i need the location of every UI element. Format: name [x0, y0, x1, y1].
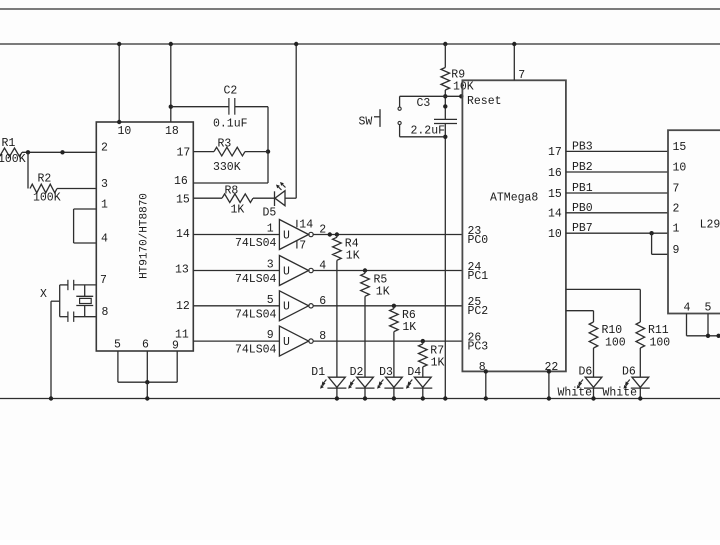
resistor R8 — [193, 184, 274, 216]
node R5 junction — [363, 268, 367, 272]
wire reset — [445, 95, 462, 97]
svg-text:PB0: PB0 — [572, 202, 593, 215]
IC U4 L293D box — [668, 130, 720, 313]
IC U2 HT9170/HT8870 box — [96, 122, 193, 351]
label X — [40, 288, 47, 301]
wire R1 to pin2 — [22, 151, 96, 153]
capacitor on pin7 — [68, 280, 74, 290]
pin 1 label — [101, 199, 108, 212]
svg-text:22: 22 — [545, 361, 559, 374]
svg-text:U: U — [283, 336, 290, 349]
svg-text:White: White — [603, 386, 638, 399]
node pin22 at IC — [547, 369, 551, 373]
pin 4 label — [101, 233, 108, 246]
resistor R10 — [589, 322, 626, 350]
wire R11 net — [566, 289, 640, 322]
svg-text:5: 5 — [114, 339, 121, 352]
svg-text:1K: 1K — [231, 204, 245, 217]
LED D6 second — [622, 366, 650, 389]
svg-text:PC3: PC3 — [468, 340, 489, 353]
node pin8 ground — [484, 396, 488, 400]
svg-text:PC2: PC2 — [468, 305, 489, 318]
svg-text:R2: R2 — [38, 173, 52, 186]
resistor R11 — [636, 322, 670, 350]
capacitor C2 — [213, 85, 248, 131]
node pin6 ground — [145, 396, 149, 400]
pin 18 label — [165, 125, 179, 138]
svg-text:1K: 1K — [376, 286, 390, 299]
svg-text:D6: D6 — [622, 366, 636, 379]
node X ground — [49, 396, 53, 400]
svg-text:R10: R10 — [602, 324, 623, 337]
node C3 ground — [443, 396, 447, 400]
svg-text:R1: R1 — [2, 137, 16, 150]
svg-text:ATMega8: ATMega8 — [490, 191, 538, 204]
pin 6 label — [142, 339, 149, 352]
pin 16 label — [174, 175, 188, 188]
svg-text:X: X — [40, 288, 47, 301]
svg-text:9: 9 — [172, 340, 179, 353]
svg-text:D2: D2 — [350, 366, 364, 379]
node PB7 branch — [649, 231, 653, 235]
svg-text:6: 6 — [142, 339, 149, 352]
svg-text:14: 14 — [176, 228, 190, 241]
svg-text:R11: R11 — [648, 324, 669, 337]
wire R10 to D6 — [593, 348, 595, 377]
svg-text:9: 9 — [673, 244, 680, 257]
svg-text:C3: C3 — [417, 97, 431, 110]
svg-text:100K: 100K — [33, 192, 61, 205]
svg-text:18: 18 — [165, 125, 179, 138]
svg-text:4: 4 — [319, 260, 326, 273]
svg-text:16: 16 — [174, 175, 188, 188]
node pin10 rail — [117, 42, 121, 46]
svg-text:1: 1 — [101, 199, 108, 212]
svg-text:74LS04: 74LS04 — [235, 344, 277, 357]
svg-text:10: 10 — [673, 162, 687, 175]
svg-text:10: 10 — [118, 125, 132, 138]
svg-text:R8: R8 — [225, 184, 239, 197]
wire PB7 to pin9 — [652, 233, 668, 254]
capacitor C3 — [411, 97, 458, 137]
pin 10 label L29 left — [673, 162, 687, 175]
node pin18 rail — [169, 42, 173, 46]
wire pins 5-6-9 bus — [118, 381, 177, 383]
node D3 ground — [392, 396, 396, 400]
svg-text:74LS04: 74LS04 — [235, 308, 277, 321]
diode D3 — [377, 366, 403, 389]
node edge junction — [716, 334, 720, 338]
resistor R4 — [333, 235, 360, 263]
wire pin9 drop — [176, 351, 178, 382]
wire PB0 net — [548, 202, 668, 221]
pin 15 label L29 left — [673, 141, 687, 154]
pin 7 label ATMega — [518, 69, 525, 82]
wire pin5 drop — [117, 351, 119, 382]
svg-text:1K: 1K — [402, 321, 416, 334]
wire caps vertical — [59, 285, 61, 317]
label L293D — [700, 219, 720, 232]
resistor R3 — [193, 137, 268, 174]
wire pin6 drop — [146, 351, 148, 382]
resistor R9 — [441, 44, 474, 119]
svg-text:Reset: Reset — [467, 95, 502, 108]
LED D5 — [263, 182, 286, 220]
svg-text:2: 2 — [319, 224, 326, 237]
diode D1 — [311, 366, 346, 389]
pin 9 label L29 — [673, 244, 680, 257]
wire pin8 lead — [60, 316, 97, 318]
wire R10 net — [566, 311, 594, 322]
pin 7 label L29 left — [673, 183, 680, 196]
node C2 tap — [169, 105, 173, 109]
node R7 junction — [421, 339, 425, 343]
wire top border line — [0, 8, 720, 10]
node C3 bottom — [443, 135, 447, 139]
LED D6 first — [577, 366, 603, 389]
svg-text:16: 16 — [548, 167, 562, 180]
pin 7 label — [100, 274, 107, 287]
svg-text:6: 6 — [319, 295, 326, 308]
wire pin18 to rail — [170, 44, 172, 122]
wire R11 to D6 — [639, 348, 641, 377]
node pin5 junction — [706, 334, 710, 338]
pin 12 label — [176, 300, 190, 313]
node R9 rail — [443, 42, 447, 46]
pin 3 label — [101, 178, 108, 191]
svg-text:D1: D1 — [311, 366, 325, 379]
label White first — [558, 386, 593, 399]
node bus junction — [145, 380, 149, 384]
pin 24 label — [468, 261, 482, 274]
wire +V top rail — [0, 43, 720, 45]
svg-text:15: 15 — [673, 141, 687, 154]
node R6 junction — [392, 304, 396, 308]
svg-text:17: 17 — [548, 146, 562, 159]
resistor R2 — [30, 173, 61, 205]
inverter U1B 74LS04 — [193, 256, 462, 287]
node reset at IC — [459, 94, 463, 98]
svg-text:White: White — [558, 386, 593, 399]
wire D6b to ground — [639, 388, 641, 398]
svg-text:14: 14 — [299, 219, 313, 232]
wire pin4 L29 — [687, 314, 720, 336]
svg-text:C2: C2 — [224, 85, 238, 98]
svg-text:1: 1 — [267, 223, 274, 236]
switch SW — [359, 96, 446, 137]
wire D5 to rail — [285, 44, 296, 198]
inverter U1C 74LS04 — [193, 291, 462, 322]
node pin10 at IC — [117, 120, 121, 124]
svg-text:1: 1 — [673, 223, 680, 236]
svg-text:8: 8 — [319, 330, 326, 343]
resistor R1 — [0, 137, 26, 166]
svg-text:10K: 10K — [453, 81, 474, 94]
label HT9170/HT8870 — [139, 193, 151, 279]
svg-text:14: 14 — [548, 208, 562, 221]
capacitor on pin8 — [68, 312, 74, 322]
svg-text:PC0: PC0 — [468, 234, 489, 247]
node D6b ground — [638, 396, 642, 400]
pin 10 label — [118, 125, 132, 138]
svg-text:100K: 100K — [0, 153, 26, 166]
wire D6a to ground — [593, 388, 595, 398]
wire pin8 ATMega to ground — [485, 371, 487, 398]
svg-text:D3: D3 — [379, 366, 393, 379]
node pin22 ground — [547, 396, 551, 400]
label ATMega8 — [490, 191, 538, 204]
node pin7 rail — [512, 42, 516, 46]
node below reset — [443, 104, 447, 108]
node extra junction — [328, 232, 332, 236]
svg-text:7: 7 — [299, 240, 306, 253]
node pin8 at IC — [484, 369, 488, 373]
node on pin2 wire — [60, 150, 64, 154]
svg-text:7: 7 — [100, 274, 107, 287]
wire R7 to D4 — [422, 367, 424, 377]
wire pin5 L29 — [707, 314, 709, 336]
pin 23 label — [468, 225, 482, 238]
wire R2 drop — [27, 152, 29, 188]
pin 25 label — [468, 296, 482, 309]
svg-text:7: 7 — [673, 183, 680, 196]
svg-text:HT9170/HT8870: HT9170/HT8870 — [139, 193, 151, 279]
label PC0 — [468, 234, 489, 247]
node D5 rail — [294, 42, 298, 46]
pin 14 label — [176, 228, 190, 241]
wire C2 right — [193, 107, 268, 183]
pin 4 label L29 — [684, 302, 691, 315]
svg-text:10: 10 — [548, 228, 562, 241]
svg-text:D4: D4 — [407, 366, 421, 379]
pin 11 label — [175, 329, 189, 342]
node reset junction — [443, 94, 447, 98]
node D4 ground — [421, 396, 425, 400]
svg-text:PB3: PB3 — [572, 140, 593, 153]
svg-text:15: 15 — [548, 188, 562, 201]
svg-text:0.1uF: 0.1uF — [213, 118, 248, 131]
svg-text:5: 5 — [705, 302, 712, 315]
pin 17 label — [177, 147, 191, 160]
svg-text:3: 3 — [267, 259, 274, 272]
pin 5 label — [114, 339, 121, 352]
svg-text:13: 13 — [175, 263, 189, 276]
svg-text:L293D: L293D — [700, 219, 720, 232]
wire C3 down — [444, 124, 446, 399]
pin 2 label — [101, 142, 108, 155]
svg-text:SW: SW — [359, 115, 373, 128]
node R4 junction — [335, 232, 339, 236]
wire pin22 to ground — [548, 371, 550, 398]
wire pin1-pin4 loop — [74, 209, 97, 243]
pin 9 label — [172, 340, 179, 353]
svg-text:5: 5 — [267, 294, 274, 307]
wire X to ground — [51, 301, 60, 398]
pin 1 label L29 left — [673, 223, 680, 236]
svg-text:74LS04: 74LS04 — [235, 273, 277, 286]
svg-text:17: 17 — [177, 147, 191, 160]
svg-text:PB7: PB7 — [572, 222, 593, 235]
wire pin10 to rail — [118, 44, 120, 122]
wire R2 to pin3 — [57, 188, 96, 190]
svg-text:2: 2 — [101, 142, 108, 155]
wire pin7 to rail — [513, 44, 515, 80]
wire D3 to ground — [393, 388, 395, 398]
svg-text:1K: 1K — [431, 356, 445, 369]
wire C2 left — [171, 106, 229, 108]
svg-text:74LS04: 74LS04 — [235, 237, 277, 250]
svg-text:PC1: PC1 — [468, 270, 489, 283]
wire PB3 net — [548, 140, 668, 159]
node R3/C2 junction — [266, 149, 270, 153]
node D2 ground — [363, 396, 367, 400]
svg-text:100: 100 — [650, 337, 671, 350]
wire pin7 lead — [60, 284, 97, 286]
svg-text:7: 7 — [518, 69, 525, 82]
svg-text:4: 4 — [684, 302, 691, 315]
svg-text:D6: D6 — [579, 366, 593, 379]
wire PB1 net — [548, 182, 668, 201]
node R1/R2 junction — [26, 150, 30, 154]
svg-text:4: 4 — [101, 233, 108, 246]
wire D2 to ground — [364, 388, 366, 398]
inverter U1A 74LS04 — [193, 219, 462, 253]
resistor R7 — [419, 341, 445, 369]
svg-text:330K: 330K — [213, 161, 241, 174]
pin 5 label L29 — [705, 302, 712, 315]
pin 22 label — [545, 361, 559, 374]
label Reset — [467, 95, 502, 108]
IC U3 ATMega8 box — [462, 80, 566, 371]
svg-text:9: 9 — [267, 329, 274, 342]
svg-text:U: U — [283, 265, 290, 278]
pin 8 label — [102, 306, 109, 319]
inverter U1D 74LS04 — [193, 326, 462, 357]
label PC1 — [468, 270, 489, 283]
svg-text:2.2uF: 2.2uF — [411, 124, 446, 137]
svg-text:D5: D5 — [263, 207, 277, 220]
wire D1 to ground — [336, 388, 338, 398]
svg-text:R3: R3 — [218, 137, 232, 150]
node D6a ground — [591, 396, 595, 400]
label PC2 — [468, 305, 489, 318]
wire R6 to D3 — [393, 332, 395, 378]
svg-text:PB1: PB1 — [572, 182, 593, 195]
node D1 ground — [335, 396, 339, 400]
wire R4 to D1 — [336, 260, 338, 377]
label PC3 — [468, 340, 489, 353]
wire PB7 net — [548, 222, 668, 241]
svg-text:U: U — [283, 229, 290, 242]
wire ground bottom rail — [0, 398, 720, 400]
svg-text:100: 100 — [605, 337, 626, 350]
wire R5 to D2 — [364, 296, 366, 377]
label White second — [603, 386, 638, 399]
svg-text:8: 8 — [479, 361, 486, 374]
svg-text:3: 3 — [101, 178, 108, 191]
svg-text:8: 8 — [102, 306, 109, 319]
svg-text:PB2: PB2 — [572, 161, 593, 174]
diode D2 — [348, 366, 374, 389]
svg-text:2: 2 — [673, 202, 680, 215]
diode D4 — [406, 366, 432, 389]
pin 26 label — [468, 331, 482, 344]
resistor R5 — [361, 271, 390, 299]
pin 15 label — [176, 194, 190, 207]
pin 8 label ATMega — [479, 361, 486, 374]
svg-text:1K: 1K — [346, 250, 360, 263]
wire D4 to ground — [422, 388, 424, 398]
pin 2 label L29 left — [673, 202, 680, 215]
crystal X1 — [76, 285, 93, 317]
svg-text:15: 15 — [176, 194, 190, 207]
wire pin6 to ground — [146, 382, 148, 398]
svg-text:12: 12 — [176, 300, 190, 313]
pin 13 label — [175, 263, 189, 276]
resistor R6 — [390, 306, 417, 334]
wire PB2 net — [548, 161, 668, 180]
svg-text:U: U — [283, 301, 290, 314]
